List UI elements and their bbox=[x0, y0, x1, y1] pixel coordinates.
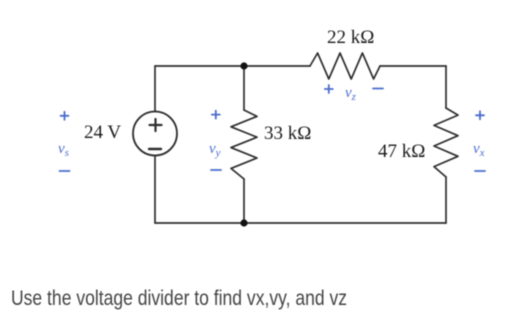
svg-text:vy: vy bbox=[209, 141, 221, 159]
vs minus bbox=[60, 170, 70, 172]
vs plus bbox=[61, 112, 69, 120]
svg-text:vx: vx bbox=[473, 141, 485, 159]
voltage source V1 circle bbox=[133, 112, 177, 156]
resistor R-22k bbox=[310, 53, 380, 79]
node junction bottom bbox=[240, 219, 247, 226]
svg-text:vs: vs bbox=[58, 141, 69, 159]
vy minus bbox=[211, 169, 221, 171]
svg-text:33 kΩ: 33 kΩ bbox=[264, 123, 311, 144]
vz minus bbox=[373, 88, 383, 90]
wire bottom horizontal bbox=[155, 222, 446, 224]
resistor R-33k bbox=[231, 110, 257, 179]
wire top-left horizontal bbox=[155, 65, 310, 67]
wire left branch lower bbox=[154, 156, 156, 224]
wire right branch upper bbox=[445, 66, 447, 108]
wire left branch upper bbox=[154, 66, 156, 112]
svg-text:24 V: 24 V bbox=[84, 122, 121, 143]
svg-text:Use the voltage divider to fin: Use the voltage divider to find vx,vy, a… bbox=[11, 287, 347, 310]
wire top-right horizontal bbox=[380, 65, 446, 67]
resistor R-47k bbox=[434, 108, 458, 177]
vx minus bbox=[475, 170, 485, 172]
wire middle branch upper bbox=[243, 66, 245, 110]
source minus sign bbox=[149, 148, 161, 150]
svg-text:47 kΩ: 47 kΩ bbox=[378, 141, 425, 162]
vz plus bbox=[325, 85, 333, 93]
svg-text:vz: vz bbox=[345, 85, 357, 103]
source plus sign bbox=[150, 119, 162, 131]
wire right branch lower bbox=[445, 177, 447, 223]
vx plus bbox=[476, 111, 484, 119]
vy plus bbox=[212, 111, 220, 119]
svg-text:22 kΩ: 22 kΩ bbox=[327, 27, 374, 48]
wire middle branch lower bbox=[243, 179, 245, 223]
node junction top bbox=[240, 62, 247, 69]
